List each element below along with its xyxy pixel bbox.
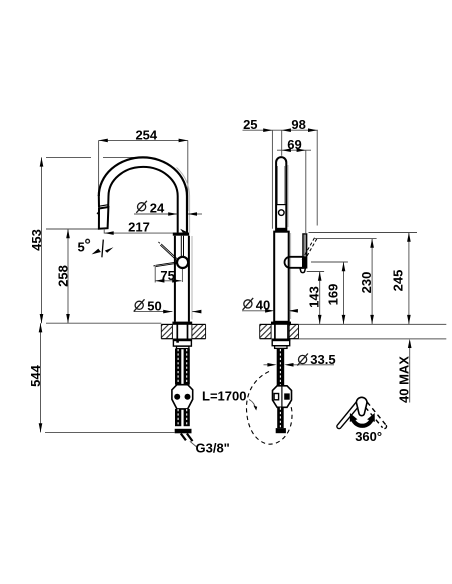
dimension 544 [28,323,175,432]
counter lines right [299,324,447,339]
dimension 40 MAX [397,339,412,403]
dimension 25 and 98 [243,117,318,229]
supply hoses front [175,349,190,385]
rotation symbol 360 [337,397,387,444]
hose elbows front [181,434,193,442]
svg-text:69: 69 [287,137,301,152]
spout arc inner [109,167,178,233]
dimension 143 [307,272,322,325]
handle tab side view [300,268,305,273]
hose connector front [172,385,193,409]
dimension diam 40 [242,297,298,312]
dimension diam 50 [134,299,202,314]
svg-text:40: 40 [256,297,270,312]
handle ball front [177,257,188,268]
leader L=1700 [249,400,257,411]
dimension 217 [105,220,189,235]
hose end fitting front [175,429,192,434]
flange front [172,322,192,325]
dimension 169 [326,262,346,324]
svg-text:254: 254 [135,127,157,142]
handle positions front [153,242,178,267]
dimension 258 [46,229,98,323]
dimension diam 33.5 [264,352,336,367]
svg-text:169: 169 [326,284,341,306]
svg-text:258: 258 [55,265,70,287]
flange side [271,322,291,325]
pull-out hose side [277,348,285,386]
svg-text:98: 98 [291,117,305,132]
body column front [175,236,192,322]
shank through counter front [177,325,187,339]
dashed hose loop [246,372,292,445]
mounting nut side [272,339,291,349]
svg-text:453: 453 [29,229,44,251]
dimension 230 [359,239,374,325]
svg-text:40 MAX: 40 MAX [397,356,412,403]
svg-text:245: 245 [391,270,406,292]
mounting nut front [173,339,192,349]
svg-text:50: 50 [147,299,161,314]
junction band front [173,233,189,236]
counter hatch front [161,324,205,338]
extension lines right side [307,233,417,272]
hose end fitting side [276,428,286,433]
hose connector side [273,386,292,408]
hose below connector side [277,407,284,428]
body column side view [274,232,290,322]
svg-text:33.5: 33.5 [310,352,335,367]
svg-text:L=1700: L=1700 [202,389,246,404]
svg-text:217: 217 [128,220,150,235]
dimension diam 24 [134,200,202,215]
handle blade side view [303,234,307,268]
svg-text:25: 25 [243,117,257,132]
spray head [97,207,109,234]
dimension 245 [391,233,411,325]
shank through counter side [275,325,288,339]
extension line faucet top [46,156,150,158]
angle 5 deg indicator [78,239,114,257]
handle hub side view [285,256,307,268]
svg-text:24: 24 [150,200,165,215]
dimension 254 [99,127,188,211]
counter hatch side [260,324,299,338]
svg-text:230: 230 [359,272,374,294]
spout arc outer [177,168,190,233]
handle tilted dashed [301,238,317,263]
dimension 69 [277,137,311,233]
hoses below connector front [175,409,190,426]
dimension 453 [29,157,44,323]
svg-text:544: 544 [28,364,43,386]
svg-text:G3/8": G3/8" [196,441,230,456]
svg-text:360°: 360° [355,429,382,444]
leader G3/8 [190,441,196,446]
svg-text:75: 75 [160,268,174,283]
pull-out head side view [276,157,288,231]
spray tube left limb [99,195,109,207]
dimension 75 [155,266,181,283]
svg-text:5: 5 [78,240,85,255]
svg-text:143: 143 [307,286,322,308]
